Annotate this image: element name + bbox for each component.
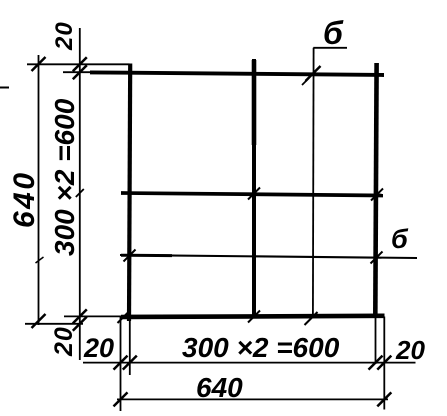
tick at B top bar <box>73 65 87 79</box>
bar H3 (bottom horizontal bar) <box>121 316 385 317</box>
tick at 640-top <box>32 57 46 71</box>
svg-text:б: б <box>391 224 409 254</box>
extension line, mesh top edge <box>27 63 130 65</box>
tick at V2 x H2 crossing <box>248 188 260 200</box>
tick at B middle bar <box>76 189 84 197</box>
tick row1 axis V1 <box>123 356 137 370</box>
extension line, mesh bottom edge (left) <box>25 323 83 325</box>
svg-text:20: 20 <box>51 21 78 51</box>
dimension line 20/300x2=600/20 (left, vertical) <box>79 28 81 360</box>
extension line, top bar level <box>63 71 98 73</box>
svg-text:640: 640 <box>196 372 243 403</box>
left edge stray mark <box>0 87 9 89</box>
tick at bar-b x top bar crossing <box>306 66 321 81</box>
extension line, bottom bar level <box>64 315 121 317</box>
tick at V1 x H3 crossing <box>118 312 129 323</box>
extension line, axis V3 (bottom) <box>375 317 377 365</box>
thin bar b (horizontal) <box>120 255 417 258</box>
dimension line 640 (left, vertical) <box>38 55 40 325</box>
extension line, mesh right edge (bottom) <box>383 317 385 410</box>
extension line, axis V1 (bottom) <box>129 318 131 375</box>
thin bar b (vertical) with leader shelf <box>312 48 315 317</box>
bar V3 (right vertical bar) <box>375 63 376 317</box>
svg-text:20: 20 <box>83 333 114 363</box>
tick at V3 x H2 crossing <box>371 189 383 201</box>
tick at bar-b x bottom bar crossing <box>305 312 318 325</box>
svg-text:300 ×2 =600: 300 ×2 =600 <box>49 98 80 256</box>
svg-text:300 ×2 =600: 300 ×2 =600 <box>182 332 340 363</box>
tick at B bottom bar <box>73 309 87 323</box>
svg-text:20: 20 <box>50 326 78 357</box>
extension line, mesh left edge (bottom) <box>120 316 122 411</box>
svg-text:б: б <box>323 15 344 51</box>
tick at B top edge <box>73 57 87 71</box>
tick at V2 x H3 crossing <box>248 311 260 323</box>
bar V1 (left vertical bar) <box>129 64 130 322</box>
tick row2 left <box>114 392 128 406</box>
svg-text:20: 20 <box>395 335 425 365</box>
tick row1 right edge <box>377 356 391 370</box>
small mark on dimension line A <box>36 257 44 263</box>
tick row2 right <box>377 392 391 406</box>
bar H1 (top horizontal bar) <box>90 72 384 75</box>
dimension line 640 (bottom) <box>117 398 388 400</box>
tick at B bottom edge <box>73 317 87 331</box>
tick at 640-bottom <box>32 314 46 328</box>
tick row1 axis V3 <box>369 356 383 370</box>
tick row1 left edge <box>114 356 128 370</box>
bar V2 (middle vertical bar) <box>252 59 256 318</box>
dimension line row 20/300x2=600/20 (bottom) <box>83 362 416 364</box>
tick at V3 x bar-b crossing <box>371 252 383 264</box>
tick at V1 x bar-b crossing <box>124 250 136 262</box>
bar H2 (middle horizontal bar) <box>121 193 383 196</box>
bar V2 upper segment (drawn heavier) <box>252 60 257 145</box>
svg-text:640: 640 <box>8 170 41 228</box>
